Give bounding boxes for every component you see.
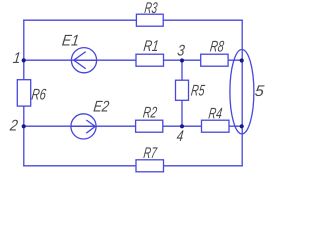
svg-text:5: 5 xyxy=(254,83,265,100)
svg-text:E2: E2 xyxy=(93,99,111,116)
voltage source E1 xyxy=(61,33,97,73)
voltage source E2 xyxy=(71,99,110,139)
svg-text:R1: R1 xyxy=(143,38,160,55)
resistor R3 xyxy=(136,0,163,26)
svg-text:R8: R8 xyxy=(209,39,225,56)
resistor R6 xyxy=(17,80,47,106)
svg-text:E1: E1 xyxy=(61,33,80,50)
resistor R1 xyxy=(136,38,164,66)
node 3 xyxy=(176,43,185,63)
resistor R2 xyxy=(136,105,163,133)
resistor R8 xyxy=(201,39,228,67)
resistor R5 xyxy=(176,80,206,100)
element 5 ellipse xyxy=(230,49,265,133)
wire top (node1 to node5 upper rail) xyxy=(24,19,242,21)
svg-text:R4: R4 xyxy=(208,105,224,122)
node 4 xyxy=(176,124,185,145)
svg-text:2: 2 xyxy=(8,118,19,135)
svg-text:R6: R6 xyxy=(31,87,48,104)
resistor R4 xyxy=(202,105,230,132)
wire right column xyxy=(241,20,243,166)
resistor R7 xyxy=(136,145,164,172)
wire left (node1 to node2 column) xyxy=(23,20,25,166)
node 2 xyxy=(8,118,26,135)
svg-text:R5: R5 xyxy=(190,83,206,100)
node 1 xyxy=(12,50,26,67)
wire row node1-node3-right xyxy=(24,59,242,61)
svg-text:3: 3 xyxy=(176,43,185,60)
wire row node2-node4-right xyxy=(24,125,242,127)
svg-text:1: 1 xyxy=(12,50,22,67)
svg-text:4: 4 xyxy=(176,128,185,145)
svg-text:R2: R2 xyxy=(142,105,158,122)
node 5 upper junction xyxy=(240,58,244,62)
wire bottom rail xyxy=(24,165,242,167)
svg-text:R3: R3 xyxy=(144,0,159,17)
wire node3 to node4 branch xyxy=(181,60,183,126)
node 5 lower junction xyxy=(240,124,244,128)
